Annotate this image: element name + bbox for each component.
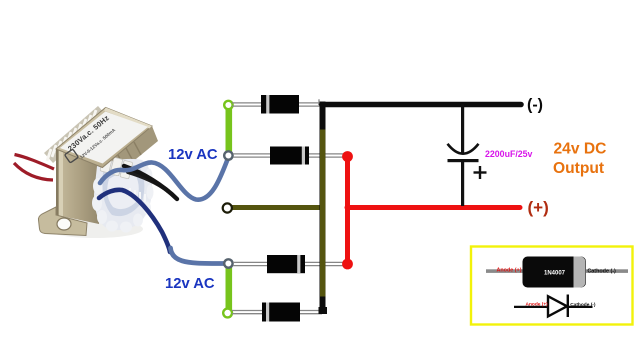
diode D4 cathode band bbox=[266, 303, 269, 322]
wire red positive vertical bbox=[345, 157, 350, 264]
black secondary stub wire 1 bbox=[124, 166, 177, 199]
end face streaks bbox=[118, 142, 141, 168]
diode D3 lead right bbox=[303, 262, 345, 265]
diode D1 cathode band bbox=[266, 95, 269, 114]
diode D4 lead left bbox=[232, 311, 263, 314]
legend diode cathode band bbox=[574, 257, 586, 288]
capacitor C1 bottom lead bbox=[461, 162, 464, 206]
bracket hole bbox=[57, 218, 71, 230]
diode D1 body bbox=[261, 95, 299, 114]
wire black negative bus (vertical) bbox=[320, 102, 326, 314]
bobbin scallop loops bbox=[92, 169, 154, 233]
blue secondary wire to bottom winding terminal (light lower part) bbox=[171, 248, 227, 264]
svg-text:12v AC: 12v AC bbox=[168, 147, 218, 163]
red primary wire 1 bbox=[15, 155, 55, 170]
terminal ring top (D3 junction) bbox=[224, 259, 232, 267]
right end face bbox=[102, 126, 158, 182]
coil inner winding bbox=[102, 165, 144, 216]
label on top face bbox=[60, 112, 148, 164]
svg-text:Output: Output bbox=[553, 160, 604, 177]
svg-text:Anode (+): Anode (+) bbox=[497, 267, 522, 273]
svg-text:1N4007: 1N4007 bbox=[544, 270, 566, 276]
blue secondary wire to top winding terminal bbox=[100, 160, 228, 200]
svg-text:Cathode (-): Cathode (-) bbox=[570, 302, 596, 308]
legend diode body 1N4007 bbox=[523, 257, 587, 288]
terminal ring bottom (D2 junction) bbox=[224, 151, 232, 159]
diode D1 lead left bbox=[232, 103, 262, 106]
legend diode lead bbox=[486, 269, 628, 273]
wire olive center-tap vertical bbox=[320, 130, 325, 297]
coil rim teeth bbox=[130, 188, 145, 202]
green terminal bar (top winding) bbox=[226, 105, 233, 156]
legend symbol anode line bbox=[514, 306, 548, 308]
shadow under transformer bbox=[47, 220, 143, 238]
bobbin coil bbox=[92, 154, 154, 232]
diode D2 lead right bbox=[308, 154, 345, 157]
legend symbol cathode bar bbox=[567, 295, 569, 318]
terminal ring top (D1 anode junction) bbox=[224, 101, 232, 109]
top face upper edge highlight bbox=[104, 108, 152, 129]
center-tap ring terminal bbox=[223, 203, 232, 212]
red primary wire 2 bbox=[14, 163, 53, 180]
wire black negative rail (top horizontal) bbox=[322, 102, 522, 108]
diode D3 cathode band bbox=[297, 255, 300, 273]
transformer T1 bbox=[14, 106, 228, 264]
svg-text:2200uF/25v: 2200uF/25v bbox=[485, 149, 533, 159]
junction nub at D4 cathode bbox=[319, 307, 328, 314]
wire olive center-tap horizontal bbox=[232, 205, 325, 210]
legend box bbox=[471, 247, 633, 325]
svg-text:Anode (+): Anode (+) bbox=[526, 301, 549, 307]
front face of frame bbox=[56, 149, 102, 224]
front face left edge shadow bbox=[56, 149, 59, 216]
legend symbol triangle bbox=[548, 296, 567, 316]
svg-text:Cathode (-): Cathode (-) bbox=[587, 268, 616, 274]
black secondary stub wire 2 bbox=[128, 172, 168, 191]
diode D3 body bbox=[267, 255, 305, 273]
green terminal bar (bottom winding) bbox=[226, 264, 233, 314]
junction dot D3 output bbox=[342, 259, 353, 270]
wire red positive rail bbox=[347, 205, 520, 210]
terminal ring bottom (D4 junction) bbox=[223, 309, 232, 318]
diode D1 lead right bbox=[298, 103, 320, 106]
junction dot D2 output bbox=[342, 151, 353, 162]
svg-text:(-): (-) bbox=[527, 97, 543, 114]
mounting bracket bbox=[38, 207, 87, 236]
svg-text:(+): (+) bbox=[528, 198, 549, 217]
bobbin terminal tabs bbox=[100, 154, 133, 179]
capacitor C1 top lead bbox=[461, 104, 464, 153]
diode D3 lead left bbox=[233, 262, 268, 265]
front face highlight strip bbox=[59, 150, 63, 217]
lamination fins bbox=[44, 106, 107, 163]
blue secondary wire to bottom winding terminal (dark upper part) bbox=[99, 190, 170, 252]
legend symbol cathode line bbox=[568, 306, 593, 308]
diode D2 cathode band bbox=[302, 147, 305, 165]
label logo stamp bbox=[65, 149, 79, 163]
diode D2 body bbox=[270, 147, 309, 165]
diode D4 body bbox=[262, 303, 300, 322]
svg-text:24v DC: 24v DC bbox=[554, 141, 607, 158]
top face of frame bbox=[56, 108, 152, 168]
diode D4 lead right bbox=[298, 311, 322, 314]
capacitor C1 curved plate bbox=[448, 144, 479, 154]
capacitor C1 plus sign bbox=[474, 166, 487, 179]
svg-text:12v AC: 12v AC bbox=[165, 276, 215, 292]
diode D1 lead end tick bbox=[318, 99, 320, 105]
diode D2 lead left bbox=[233, 154, 271, 157]
capacitor C1 straight plate bbox=[448, 159, 479, 162]
